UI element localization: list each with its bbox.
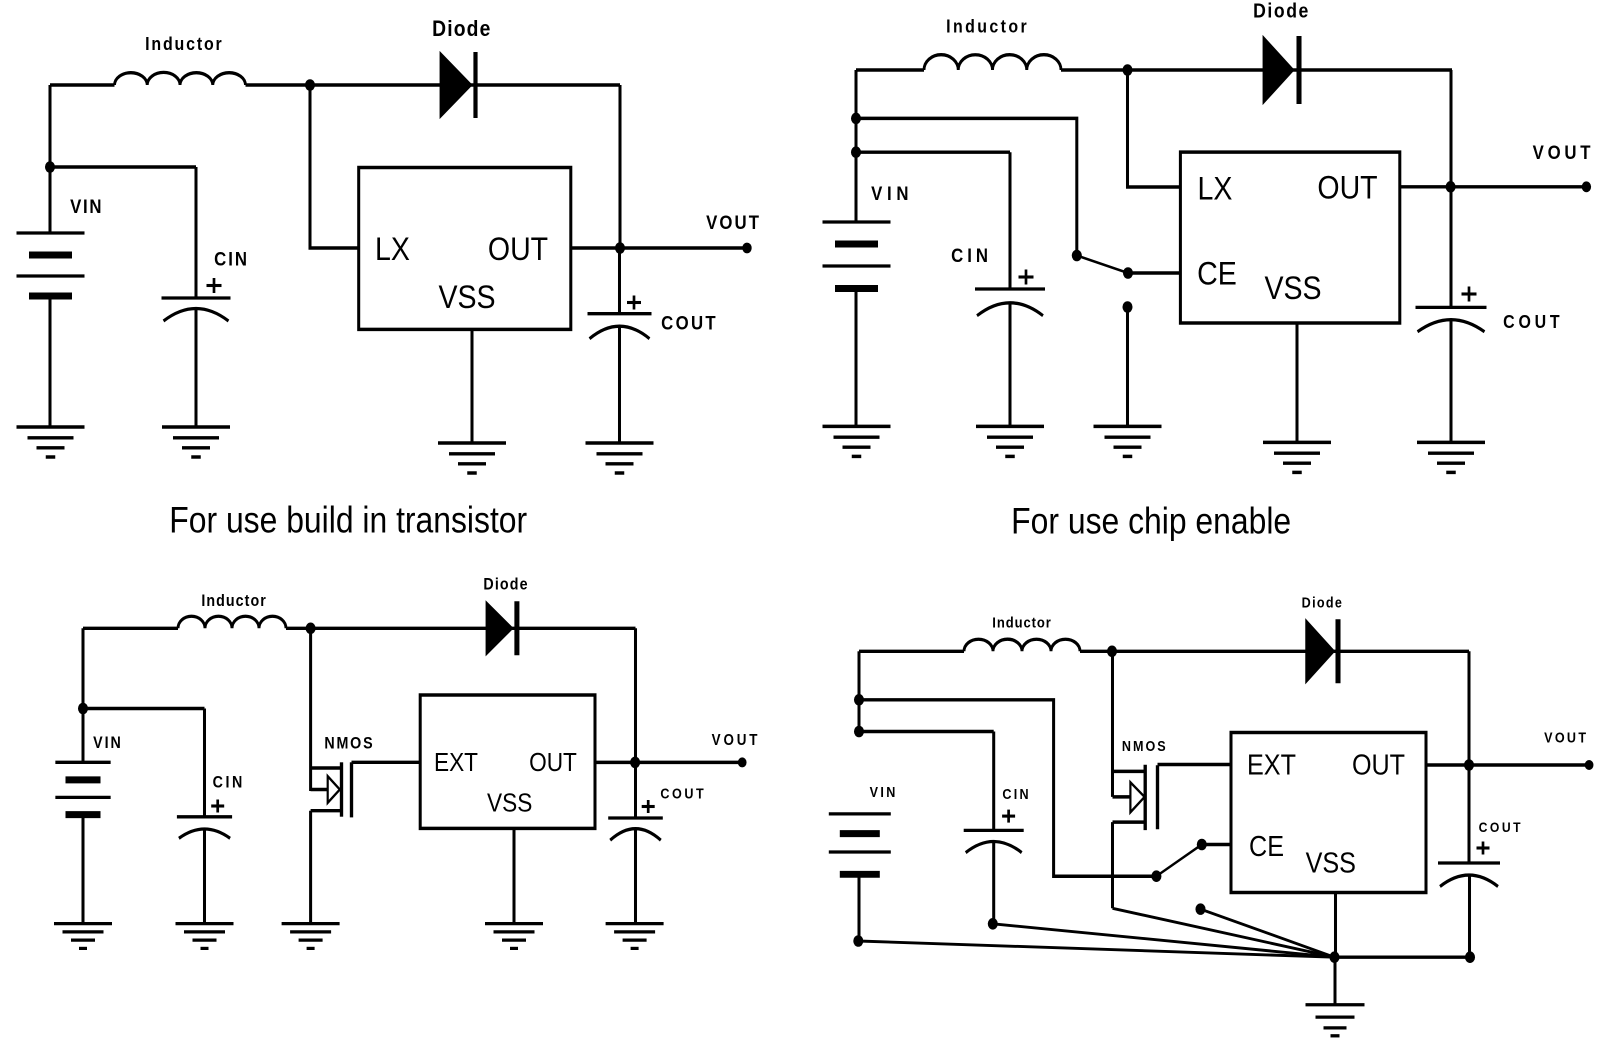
svg-text:Inductor: Inductor [946, 16, 1028, 37]
svg-text:VOUT: VOUT [706, 212, 760, 233]
svg-text:COUT: COUT [1503, 311, 1561, 332]
svg-text:CIN: CIN [214, 248, 248, 269]
svg-text:CIN: CIN [1002, 786, 1028, 802]
svg-text:COUT: COUT [660, 786, 704, 802]
svg-text:VSS: VSS [487, 789, 532, 818]
svg-text:VIN: VIN [70, 196, 102, 217]
svg-text:LX: LX [375, 230, 410, 267]
svg-text:CE: CE [1197, 255, 1237, 292]
svg-text:NMOS: NMOS [324, 735, 373, 753]
svg-text:Inductor: Inductor [992, 614, 1051, 631]
svg-text:VIN: VIN [870, 784, 896, 800]
svg-text:VSS: VSS [1306, 846, 1356, 879]
svg-text:CIN: CIN [213, 773, 243, 791]
svg-text:VIN: VIN [871, 183, 909, 204]
svg-text:OUT: OUT [529, 749, 577, 778]
svg-text:Diode: Diode [1253, 1, 1309, 23]
svg-text:OUT: OUT [488, 230, 548, 267]
svg-text:VSS: VSS [1264, 269, 1321, 306]
svg-text:OUT: OUT [1352, 748, 1405, 781]
svg-text:LX: LX [1198, 169, 1233, 206]
svg-text:Diode: Diode [483, 576, 528, 594]
svg-text:For use chip enable: For use chip enable [1011, 502, 1291, 543]
svg-text:EXT: EXT [434, 749, 478, 778]
svg-text:Inductor: Inductor [145, 33, 223, 54]
svg-text:Diode: Diode [1302, 595, 1343, 611]
svg-text:Diode: Diode [432, 17, 491, 42]
svg-text:CIN: CIN [951, 245, 989, 266]
svg-text:For use build in transistor: For use build in transistor [169, 500, 527, 541]
svg-text:Inductor: Inductor [201, 592, 266, 610]
svg-text:EXT: EXT [1247, 748, 1296, 781]
svg-text:COUT: COUT [1479, 819, 1522, 835]
svg-text:VSS: VSS [438, 278, 495, 315]
svg-text:COUT: COUT [661, 312, 717, 333]
svg-text:CE: CE [1249, 829, 1284, 862]
svg-text:VIN: VIN [93, 734, 121, 752]
svg-text:OUT: OUT [1317, 169, 1377, 206]
